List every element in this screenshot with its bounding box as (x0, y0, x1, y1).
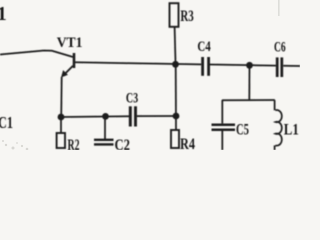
svg-text:C5: C5 (236, 121, 249, 138)
wire: main top rail segment 2 (C4 to C6) (210, 65, 276, 66)
node: tank / main rail junction (246, 62, 253, 69)
node: R3 / main rail junction (172, 61, 179, 68)
wire: main top rail segment 3 (C6 to right edge) (283, 65, 300, 67)
wire: L1 upper lead (274, 100, 276, 110)
wire: C5 upper lead (221, 100, 223, 123)
svg-text:VT1: VT1 (57, 35, 83, 51)
wire: tank circuit feed from main rail (248, 66, 250, 101)
wire: base lead of VT1 from left edge (0, 51, 73, 58)
capacitor C5 top plate (212, 123, 236, 126)
svg-text:R4: R4 (180, 136, 195, 150)
node: emitter / lower rail junction (58, 114, 65, 121)
wire: R2 lead (60, 117, 62, 133)
wire: lower rail left segment (emitter to C3) (61, 115, 129, 118)
svg-text:C4: C4 (197, 39, 210, 55)
transistor VT1 base bar (73, 53, 76, 68)
wire: C5 lower lead (221, 131, 223, 150)
wire: collector line (main top rail) segment 1 (75, 62, 201, 64)
capacitor C2 top plate (94, 139, 114, 141)
capacitor C6 left plate (276, 57, 279, 77)
capacitor C4 left plate (201, 57, 204, 76)
wire: R3 lead (174, 27, 177, 64)
resistor R4 body (171, 130, 179, 148)
transistor VT1 emitter arrow (61, 70, 68, 77)
capacitor C3 right plate (134, 106, 137, 126)
svg-text:C6: C6 (274, 39, 286, 55)
inductor L1 coil (275, 110, 281, 146)
wire: vertical from main rail down to R4 (175, 64, 177, 130)
svg-text:R2: R2 (68, 137, 80, 150)
svg-text:C2: C2 (115, 137, 131, 150)
resistor R3 body (170, 3, 179, 27)
svg-text:L1: L1 (284, 121, 299, 138)
node: R4 / lower rail junction (173, 113, 180, 120)
scan artifact: speckle bottom-left (2, 140, 28, 150)
capacitor C6 right plate (280, 57, 283, 77)
wire: tank top (222, 99, 275, 101)
node: C2 junction (102, 113, 109, 120)
resistor R2 body (57, 133, 65, 148)
svg-text:C3: C3 (126, 90, 139, 107)
wire: emitter vertical (60, 77, 63, 117)
scan artifact: faint streak above C6 (278, 0, 280, 16)
wire: C2 lead (104, 117, 106, 140)
wire: L1 lower lead (274, 145, 276, 150)
svg-text:R3: R3 (180, 8, 193, 25)
transistor VT1 emitter lead (64, 66, 73, 75)
svg-text:C1: C1 (0, 113, 13, 132)
capacitor C2 bottom plate (94, 143, 114, 145)
capacitor C4 right plate (207, 57, 210, 76)
capacitor C3 left plate (129, 106, 132, 126)
capacitor C5 bottom plate (212, 128, 236, 131)
svg-text:1: 1 (0, 4, 7, 25)
wire: lower rail right segment (C3 to R4 node) (137, 115, 176, 117)
